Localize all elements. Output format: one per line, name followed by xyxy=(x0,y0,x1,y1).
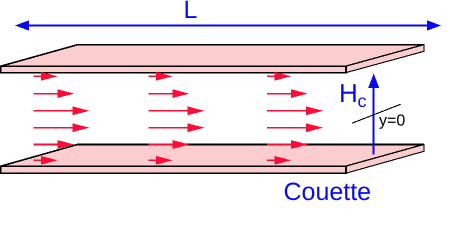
svg-text:Couette: Couette xyxy=(284,178,372,206)
svg-text:H: H xyxy=(339,78,358,108)
svg-text:L: L xyxy=(184,0,198,24)
svg-text:c: c xyxy=(358,91,367,111)
svg-text:y=0: y=0 xyxy=(379,113,405,130)
